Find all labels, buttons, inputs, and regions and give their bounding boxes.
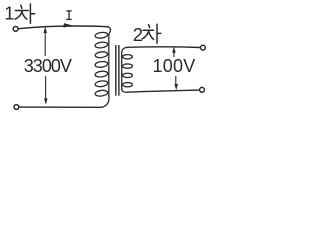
label 2차 (secondary)	[133, 24, 161, 45]
wire primary top	[18, 26, 108, 29]
transformer core	[115, 45, 117, 96]
terminal bottom-left	[14, 105, 19, 110]
svg-text:3300V: 3300V	[24, 56, 72, 76]
transformer secondary coil	[122, 47, 133, 92]
svg-text:1: 1	[4, 2, 14, 23]
terminal top-right	[201, 45, 206, 50]
wire secondary bottom	[127, 90, 200, 92]
dimension arrow 100V	[172, 46, 178, 90]
current arrow I	[64, 23, 72, 28]
wire secondary top	[127, 46, 200, 49]
terminal bottom-right	[200, 87, 205, 92]
label 1차 (primary)	[4, 2, 34, 23]
terminal top-left	[13, 27, 18, 32]
svg-text:2: 2	[133, 24, 143, 45]
transformer primary coil	[95, 27, 111, 108]
dimension arrow 3300V	[44, 27, 48, 105]
wire primary bottom	[19, 106, 102, 108]
svg-text:100V: 100V	[153, 56, 196, 76]
